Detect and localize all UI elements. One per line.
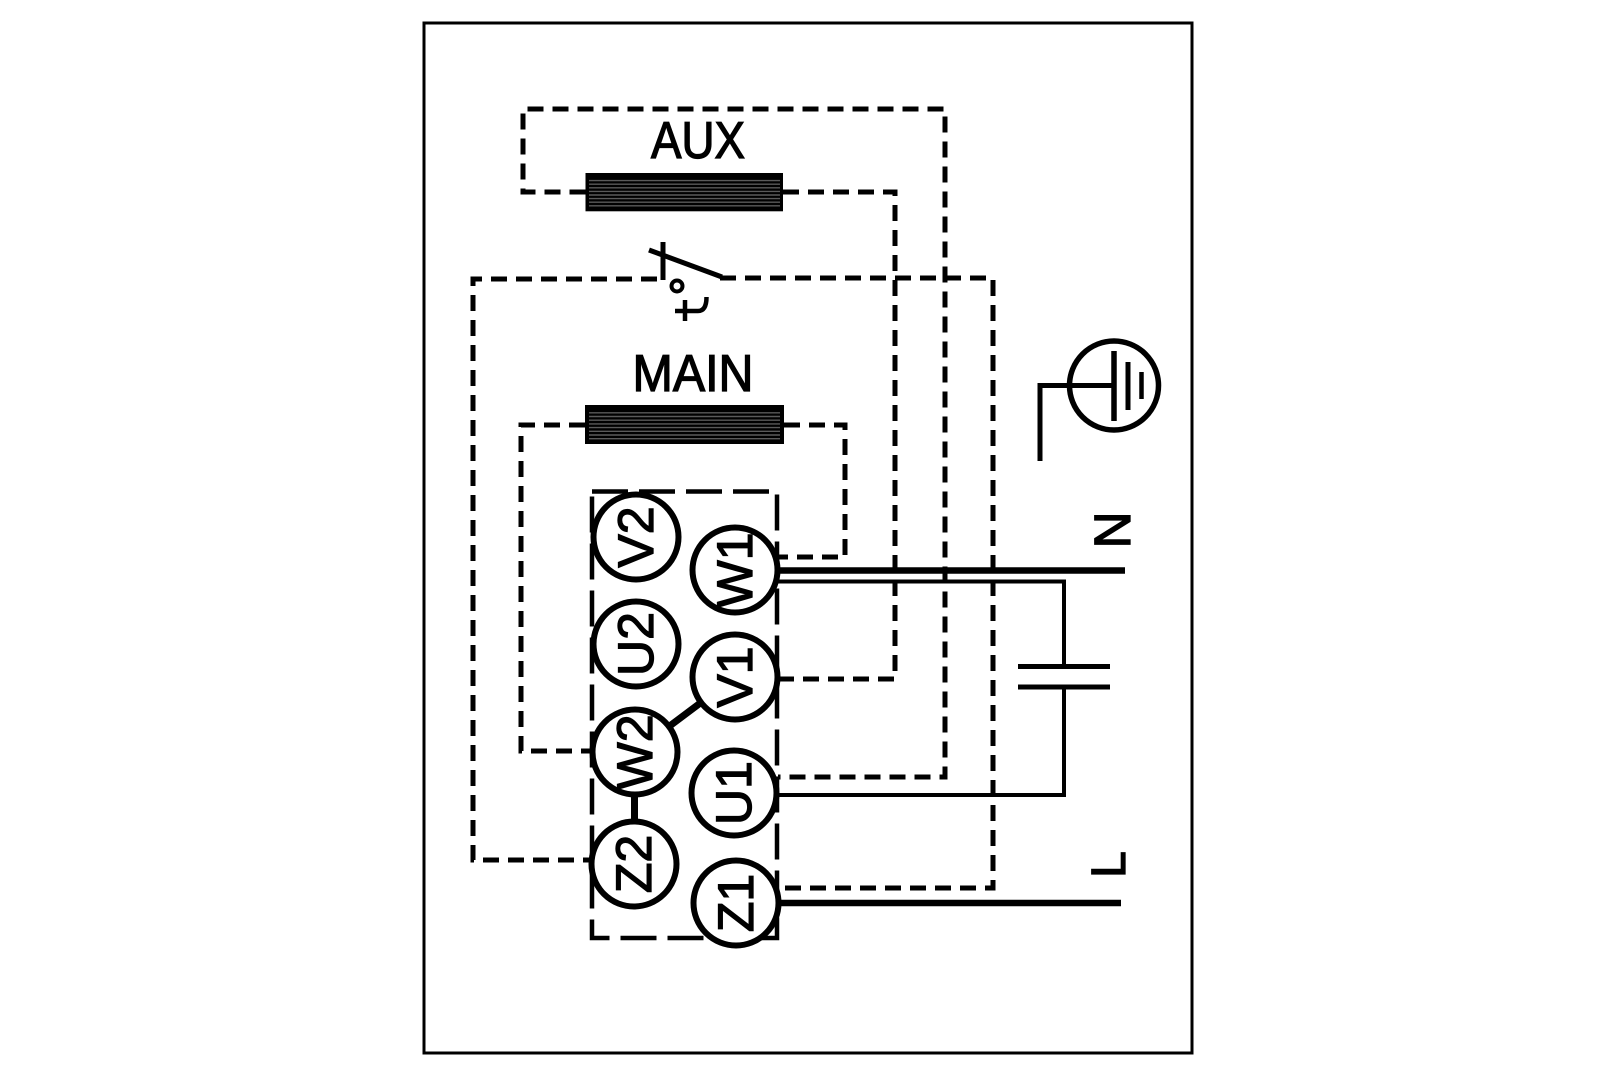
enclosure frame xyxy=(424,23,1192,1053)
terminal Z1 xyxy=(694,861,779,946)
terminal V1 xyxy=(693,635,778,720)
wire AUX left terminal to U1 (dashed) xyxy=(523,109,945,777)
terminal W1 xyxy=(693,528,778,613)
svg-text:MAIN: MAIN xyxy=(633,345,754,403)
wire MAIN left terminal to W2 (dashed) xyxy=(521,425,593,751)
svg-text:Z2: Z2 xyxy=(606,835,662,893)
wire L line (thick) xyxy=(778,900,1121,907)
svg-text:V2: V2 xyxy=(608,506,664,567)
capacitor C xyxy=(778,582,1110,796)
svg-text:N: N xyxy=(1084,512,1141,549)
wire N line (thick) xyxy=(778,567,1125,574)
terminal block outline (dashed) xyxy=(592,492,777,939)
wire MAIN right terminal to W1 (dashed) xyxy=(778,425,845,557)
svg-text:U2: U2 xyxy=(608,612,664,676)
svg-text:V1: V1 xyxy=(707,646,763,707)
wire AUX right terminal to V1 (dashed) xyxy=(778,192,895,679)
earth ground symbol xyxy=(1040,341,1159,461)
svg-text:L: L xyxy=(1083,851,1136,878)
terminal U1 xyxy=(692,751,777,836)
thermal switch t° xyxy=(649,242,722,321)
label L xyxy=(1083,851,1136,878)
terminal V2 xyxy=(594,495,679,580)
label N xyxy=(1084,512,1141,549)
wire switch left to Z2 (dashed) xyxy=(473,279,657,860)
terminal U2 xyxy=(594,602,679,687)
winding AUX xyxy=(586,173,784,211)
svg-text:Z1: Z1 xyxy=(708,874,764,932)
winding MAIN xyxy=(585,405,784,444)
svg-text:AUX: AUX xyxy=(651,112,745,170)
terminal W2 xyxy=(593,710,678,795)
terminal Z2 xyxy=(592,822,677,907)
svg-text:W2: W2 xyxy=(607,715,663,790)
svg-text:U1: U1 xyxy=(706,761,762,825)
link W2 to Z2 xyxy=(631,752,638,864)
svg-text:W1: W1 xyxy=(707,533,763,608)
wire switch right to Z1 (dashed) xyxy=(720,278,993,888)
link W2 to V1 xyxy=(635,677,735,752)
